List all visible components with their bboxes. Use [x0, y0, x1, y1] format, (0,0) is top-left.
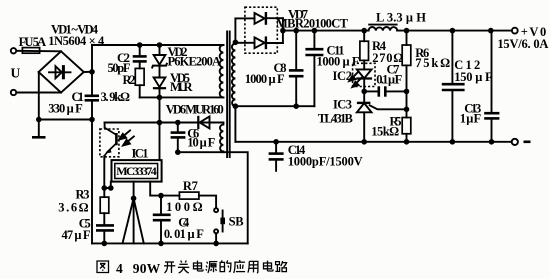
- svg-text:IC2: IC2: [333, 69, 353, 83]
- svg-text:3. 9kΩ: 3. 9kΩ: [101, 90, 131, 104]
- svg-text:L 3.3 μ H: L 3.3 μ H: [376, 11, 426, 25]
- svg-text:15V/6. 0A: 15V/6. 0A: [497, 37, 548, 51]
- svg-text:VD6 MUR160: VD6 MUR160: [166, 102, 224, 116]
- svg-text:R3: R3: [76, 188, 90, 202]
- svg-text:MC33374: MC33374: [116, 164, 157, 178]
- svg-text:0.1 μ F: 0.1 μ F: [376, 72, 402, 86]
- svg-text:47 μ F: 47 μ F: [62, 228, 91, 242]
- svg-text:1000pF/1500V: 1000pF/1500V: [288, 154, 363, 168]
- svg-text:MUR: MUR: [170, 80, 193, 94]
- svg-text:FU 5A: FU 5A: [19, 35, 46, 49]
- svg-text:1000 μ F: 1000 μ F: [245, 72, 285, 86]
- svg-text:3.6Ω: 3.6Ω: [58, 201, 88, 215]
- svg-text:75kΩ: 75kΩ: [415, 56, 450, 70]
- svg-text:R7: R7: [183, 179, 198, 193]
- svg-text:4: 4: [116, 261, 123, 276]
- svg-text:90W: 90W: [133, 261, 161, 276]
- svg-text:IC3: IC3: [333, 97, 352, 111]
- svg-text:0. 01 μ F: 0. 01 μ F: [164, 227, 204, 241]
- svg-text:100Ω: 100Ω: [166, 200, 203, 214]
- svg-text:1N5604 × 4: 1N5604 × 4: [48, 34, 105, 48]
- svg-text:MBR20100CT: MBR20100CT: [276, 17, 349, 31]
- svg-text:IC1: IC1: [132, 146, 149, 160]
- svg-text:R2: R2: [123, 73, 136, 87]
- svg-text:10 μ F: 10 μ F: [187, 135, 215, 149]
- svg-text:1 μ F: 1 μ F: [460, 111, 482, 125]
- svg-text:TL431B: TL431B: [318, 111, 353, 125]
- svg-text:15kΩ: 15kΩ: [371, 124, 399, 138]
- svg-text:150 μ F: 150 μ F: [454, 70, 493, 84]
- svg-text:330 μ F: 330 μ F: [48, 102, 83, 116]
- svg-text:P6KE200A: P6KE200A: [168, 54, 222, 68]
- svg-text:SB: SB: [229, 214, 244, 228]
- svg-text:U: U: [11, 66, 21, 81]
- svg-text:1000 μ F: 1000 μ F: [317, 54, 360, 68]
